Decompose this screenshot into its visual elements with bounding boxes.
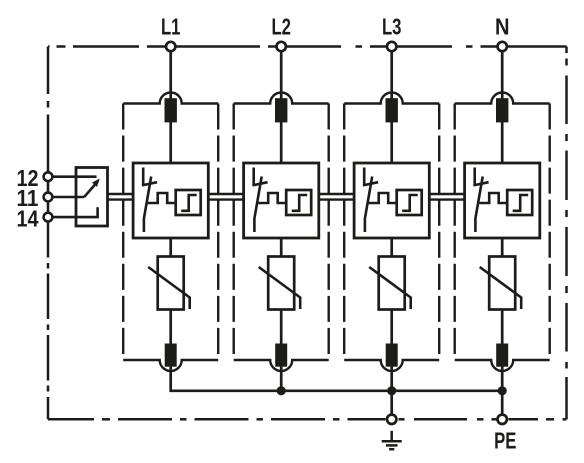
terminal L1 (open circle) <box>166 42 175 51</box>
spark-gap switching characteristic symbol, module 4 <box>513 195 529 211</box>
wire from terminal L1 to upper thermal disconnector, module 1 <box>169 51 172 100</box>
changeover contact blade arrowhead <box>93 180 99 186</box>
label 11 <box>17 185 39 211</box>
wire terminal 14 to changeover contact with stub <box>51 207 98 217</box>
junction dot on PE bus at module 3 <box>387 386 396 395</box>
disconnect switch fixed contact, module 3 <box>363 168 366 185</box>
trigger step waveform, module 3 <box>369 193 397 203</box>
upper thermal disconnector (filled bar) module 2 <box>275 98 287 122</box>
trigger step waveform, module 2 <box>258 193 286 203</box>
protection module 2 (L2) dashed housing bottom edge with plug-in arc <box>234 360 329 371</box>
mechanical linkage double line, module 2 to module 3 <box>318 194 355 200</box>
device enclosure border top (dash-dot) <box>48 45 567 48</box>
wire from varistor to lower thermal disconnector, module 2 <box>280 309 283 346</box>
svg-text:PE: PE <box>494 427 516 453</box>
wire from upper disconnector to SPD element box, module 1 <box>169 122 172 164</box>
wire from SPD box to varistor, module 2 <box>280 237 283 258</box>
junction dot on PE bus at module 2 <box>277 386 286 395</box>
svg-text:L2: L2 <box>271 14 291 40</box>
wire from varistor to lower thermal disconnector, module 3 <box>390 309 393 346</box>
label PE <box>494 427 516 453</box>
protection module 3 (L3) dashed housing left edge <box>343 104 345 361</box>
SPD switching element box U2 <box>244 163 319 238</box>
label L2 <box>271 14 291 40</box>
remote signalling contact box K1 <box>76 168 108 227</box>
protection module 4 (N) dashed housing left edge <box>454 104 456 361</box>
svg-text:14: 14 <box>17 205 39 231</box>
device enclosure border left (dash-dot) <box>47 47 50 420</box>
thermal-trip tick mark, module 2 <box>252 182 267 185</box>
wire from PE bus down to ground terminal <box>390 391 393 420</box>
spark-gap switching characteristic symbol, module 3 <box>402 195 418 211</box>
wire from varistor to lower thermal disconnector, module 4 <box>501 309 504 346</box>
wire PE bus from module 1 output to module 4 <box>171 366 503 391</box>
varistor RV2 diagonal stroke <box>259 267 301 309</box>
wire from terminal L2 to upper thermal disconnector, module 2 <box>280 51 283 100</box>
protection module 2 (L2) dashed housing right edge <box>328 104 330 361</box>
wire module 3 output down to PE bus <box>390 366 393 391</box>
protection module 1 (L1) dashed housing bottom edge with plug-in arc <box>123 360 218 371</box>
protection module 1 (L1) dashed housing right edge <box>217 104 219 361</box>
thermal-trip tick mark, module 1 <box>142 182 157 185</box>
spark-gap switching characteristic symbol, module 1 <box>181 195 197 211</box>
disconnect switch fixed contact, module 1 <box>142 168 145 185</box>
junction dot on PE bus at module 4 <box>498 386 507 395</box>
varistor RV2 body <box>268 257 294 310</box>
spark-gap switching characteristic symbol, module 2 <box>292 195 308 211</box>
upper thermal disconnector (filled bar) module 4 <box>496 98 508 122</box>
wire from SPD box to varistor, module 4 <box>501 237 504 258</box>
disconnect switch blade, module 3 <box>365 177 372 233</box>
mechanical linkage double line, module 1 to module 2 <box>207 194 244 200</box>
mechanical linkage double line, module 3 to module 4 <box>428 194 465 200</box>
wire module 2 output down to PE bus <box>280 366 283 391</box>
wire from terminal L3 to upper thermal disconnector, module 3 <box>390 51 393 100</box>
upper thermal disconnector (filled bar) module 1 <box>165 98 177 122</box>
wire from upper disconnector to SPD element box, module 4 <box>501 122 504 164</box>
varistor RV3 body <box>379 257 405 310</box>
thermal-trip tick mark, module 3 <box>363 182 378 185</box>
ground symbol <box>382 431 402 449</box>
terminal L2 (open circle) <box>277 42 286 51</box>
wire from PE bus down to PE terminal <box>501 391 504 420</box>
terminal 14 (open circle) <box>44 213 53 222</box>
trigger step waveform, module 4 <box>479 193 507 203</box>
protection module 3 (L3) dashed housing right edge <box>438 104 440 361</box>
wire from terminal N to upper thermal disconnector, module 4 <box>501 51 504 100</box>
terminal N (open circle) <box>498 42 507 51</box>
wire terminal 11 to changeover contact common <box>51 196 84 199</box>
wire from varistor to lower thermal disconnector, module 1 <box>169 309 172 346</box>
SPD switching element box U1 <box>133 163 208 238</box>
protection module 4 (N) dashed housing right edge <box>549 104 551 361</box>
device enclosure border right (dash-dot) <box>565 47 568 420</box>
label L1 <box>161 14 181 40</box>
varistor RV1 body <box>158 257 184 310</box>
disconnect switch fixed contact, module 2 <box>252 168 255 185</box>
spark-gap element box, module 3 <box>397 190 422 215</box>
label 12 <box>17 165 39 191</box>
lower thermal disconnector (filled bar) module 4 <box>496 344 508 367</box>
varistor RV4 diagonal stroke <box>480 267 522 309</box>
upper thermal disconnector (filled bar) module 3 <box>386 98 398 122</box>
trigger step waveform, module 1 <box>148 193 176 203</box>
wire from SPD box to varistor, module 1 <box>169 237 172 258</box>
thermal-trip tick mark, module 4 <box>473 182 488 185</box>
protection module 1 (L1) dashed housing top edge with plug-in arc <box>123 93 218 104</box>
varistor RV3 diagonal stroke <box>369 267 411 309</box>
spark-gap element box, module 4 <box>507 190 532 215</box>
label N <box>495 14 510 40</box>
terminal 11 (open circle) <box>44 193 53 202</box>
protection module 2 (L2) dashed housing left edge <box>232 104 234 361</box>
lower thermal disconnector (filled bar) module 2 <box>275 344 287 367</box>
varistor RV1 diagonal stroke <box>148 267 190 309</box>
disconnect switch blade, module 2 <box>254 177 261 233</box>
svg-text:L1: L1 <box>161 14 181 40</box>
protection module 3 (L3) dashed housing top edge with plug-in arc <box>344 93 439 104</box>
disconnect switch fixed contact, module 4 <box>473 168 476 185</box>
ground terminal (open circle) <box>387 415 396 424</box>
protection module 3 (L3) dashed housing bottom edge with plug-in arc <box>344 360 439 371</box>
PE terminal (open circle) <box>498 415 507 424</box>
wire solid segment of left border through signalling terminals <box>47 170 50 223</box>
wire from upper disconnector to SPD element box, module 3 <box>390 122 393 164</box>
protection module 4 (N) dashed housing top edge with plug-in arc <box>455 93 550 104</box>
terminal L3 (open circle) <box>387 42 396 51</box>
SPD switching element box U4 <box>465 163 540 238</box>
label L3 <box>382 14 402 40</box>
wire from SPD box to varistor, module 3 <box>390 237 393 258</box>
protection module 1 (L1) dashed housing left edge <box>122 104 124 361</box>
spark-gap element box, module 1 <box>176 190 201 215</box>
svg-text:N: N <box>495 14 510 40</box>
terminal 12 (open circle) <box>44 172 53 181</box>
lower thermal disconnector (filled bar) module 3 <box>386 344 398 367</box>
changeover contact blade 11-12 <box>84 184 96 197</box>
varistor RV4 body <box>489 257 515 310</box>
SPD switching element box U3 <box>354 163 429 238</box>
svg-text:L3: L3 <box>382 14 402 40</box>
mechanical linkage double line, signalling contact box to module 1 <box>108 194 135 200</box>
lower thermal disconnector (filled bar) module 1 <box>165 344 177 367</box>
spark-gap element box, module 2 <box>286 190 311 215</box>
protection module 4 (N) dashed housing bottom edge with plug-in arc <box>455 360 550 371</box>
wire terminal 12 to changeover contact <box>51 175 97 178</box>
label 14 <box>17 205 39 231</box>
device enclosure border bottom (dash-dot) <box>48 418 567 421</box>
protection module 2 (L2) dashed housing top edge with plug-in arc <box>234 93 329 104</box>
wire module 4 output down to PE bus <box>501 366 504 391</box>
wire from upper disconnector to SPD element box, module 2 <box>280 122 283 164</box>
disconnect switch blade, module 1 <box>144 177 151 233</box>
disconnect switch blade, module 4 <box>475 177 482 233</box>
